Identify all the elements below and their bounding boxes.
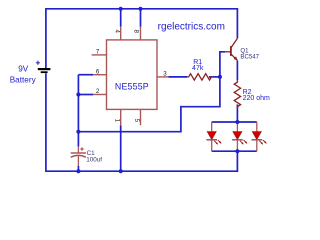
svg-text:1: 1	[113, 119, 120, 123]
wire R1 to base junction	[209, 76, 220, 78]
svg-text:NE555P: NE555P	[115, 82, 149, 92]
wire pin6 stub link	[78, 74, 93, 76]
wire R2 to LED top bus	[236, 104, 238, 122]
wire pin1 to bottom rail	[120, 125, 122, 171]
wire Q1 emitter to R2	[236, 61, 238, 81]
junction dot top rail pin4	[119, 7, 123, 11]
svg-text:9V: 9V	[18, 65, 29, 74]
svg-text:100uf: 100uf	[86, 157, 102, 164]
wire left rail below battery / bottom rail / rise to LED bottom bus	[46, 73, 238, 171]
pin stub 7	[92, 54, 107, 56]
svg-text:6: 6	[96, 68, 100, 75]
pin stub 6	[93, 74, 106, 76]
resistor R1	[187, 59, 213, 80]
wire LED top bus	[212, 121, 257, 123]
LED D3	[252, 122, 267, 151]
wire LED bottom bus	[212, 150, 257, 152]
pin stub 4	[120, 27, 122, 40]
svg-text:Battery: Battery	[10, 76, 37, 85]
svg-text:2: 2	[96, 88, 100, 95]
svg-text:5: 5	[133, 119, 140, 123]
op-amp-style IC U1 NE555P body	[107, 40, 158, 110]
junction dot LED top bus	[235, 120, 239, 124]
svg-text:220 ohm: 220 ohm	[243, 95, 270, 102]
resistor R2	[234, 80, 270, 108]
transistor Q1	[225, 38, 260, 60]
junction dot C1 bottom rail	[76, 169, 80, 173]
svg-text:4: 4	[113, 29, 120, 33]
svg-text:rgelectrics.com: rgelectrics.com	[158, 22, 225, 33]
junction dot R1 base node	[218, 75, 222, 79]
wire top rail / left rail / collector drop	[46, 9, 238, 68]
pin stub 3	[157, 76, 168, 78]
junction dot LED bottom bus	[235, 149, 239, 153]
wire pin8 to top rail	[140, 9, 142, 27]
LED D1	[206, 122, 221, 151]
svg-text:3: 3	[163, 71, 167, 78]
junction dot pin2 net	[76, 92, 80, 96]
battery B1	[10, 61, 51, 85]
wire pin4 to top rail	[120, 9, 122, 27]
svg-text:47k: 47k	[192, 65, 204, 72]
wire left net vertical pins 2-6 to C1	[77, 75, 79, 147]
pin stub 1	[120, 109, 122, 125]
pin stub 8	[140, 27, 142, 40]
svg-text:8: 8	[133, 29, 140, 33]
junction dot top rail pin8	[138, 7, 142, 11]
svg-text:7: 7	[96, 49, 100, 56]
pin stub 2	[93, 94, 106, 96]
svg-text:BC547: BC547	[240, 54, 259, 61]
capacitor C1	[71, 147, 103, 172]
junction dot feedback net at C1 column	[76, 130, 80, 134]
pin stub 5	[140, 109, 142, 125]
wire feedback net to Q1 base	[78, 52, 225, 132]
junction dot pin1 bottom rail	[119, 169, 123, 173]
wire pin3 to R1	[168, 76, 187, 78]
LED D2	[232, 122, 247, 151]
wire pin2 stub link	[78, 94, 93, 96]
